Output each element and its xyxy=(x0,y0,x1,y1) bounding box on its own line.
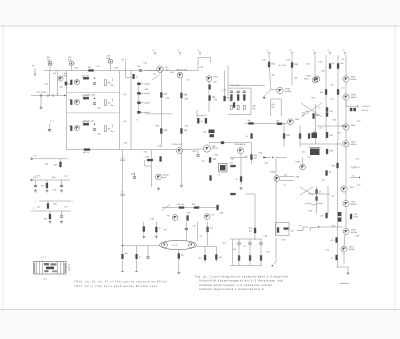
node v276 end xyxy=(272,265,273,266)
wire v181 low xyxy=(180,150,182,183)
svg-text:4n7: 4n7 xyxy=(342,87,345,90)
svg-text:R52: R52 xyxy=(193,150,196,153)
svg-text:2k2: 2k2 xyxy=(203,131,207,134)
wire v197 low xyxy=(197,222,199,241)
svg-text:21: 21 xyxy=(267,49,269,52)
resistor R62 xyxy=(326,171,332,176)
wire tv2 xyxy=(249,239,251,266)
resistor Rd xyxy=(238,256,240,261)
wire v209 xyxy=(208,82,210,113)
svg-text:BF194: BF194 xyxy=(349,248,356,251)
svg-text:21: 21 xyxy=(328,49,330,52)
transistor TR16 xyxy=(204,214,210,220)
svg-text:n47: n47 xyxy=(308,156,311,159)
wire h123 xyxy=(245,123,287,125)
wire sw bottom row xyxy=(145,113,173,115)
wire v269 xyxy=(269,55,277,90)
wire out row4 xyxy=(31,210,71,212)
resistor R80 xyxy=(251,155,253,160)
resistor R92 xyxy=(217,205,219,210)
svg-text:1n: 1n xyxy=(159,227,161,230)
svg-text:+40µ: +40µ xyxy=(131,173,136,176)
svg-text:C25: C25 xyxy=(53,72,56,75)
capacitor C51 xyxy=(146,257,149,258)
jack r2 xyxy=(31,179,33,181)
break mark 2 xyxy=(120,194,125,196)
resistor R2a xyxy=(83,97,89,99)
wire chain d xyxy=(345,130,347,141)
resistor R48 xyxy=(308,134,310,139)
transistor TR53 xyxy=(343,229,349,235)
transistor TR8 xyxy=(343,76,349,82)
svg-text:R76: R76 xyxy=(53,189,56,192)
svg-text:R35: R35 xyxy=(171,71,174,74)
pot loop P3 xyxy=(271,99,282,116)
resistor R99 xyxy=(215,255,217,260)
svg-text:4 5: 4 5 xyxy=(44,278,48,281)
wire v198 xyxy=(197,150,199,155)
resistor R65 xyxy=(326,213,328,218)
svg-text:6k8 2k2: 6k8 2k2 xyxy=(82,121,90,124)
svg-text:TR31: TR31 xyxy=(213,76,219,79)
svg-text:25µ: 25µ xyxy=(98,133,102,136)
svg-text:log: log xyxy=(253,107,256,110)
svg-text:AC128: AC128 xyxy=(212,147,219,150)
svg-text:25µ: 25µ xyxy=(111,84,115,87)
wire c62 lead xyxy=(61,211,63,215)
svg-text:5µ6: 5µ6 xyxy=(60,86,63,89)
wire v228 xyxy=(227,65,229,96)
svg-text:3n3: 3n3 xyxy=(233,248,236,251)
svg-text:out: out xyxy=(68,269,71,272)
svg-text:4k7: 4k7 xyxy=(320,91,324,94)
wire box bottom xyxy=(67,149,177,151)
svg-text:R60: R60 xyxy=(309,210,312,213)
wire h207 xyxy=(162,207,219,209)
resistor R45 xyxy=(251,134,253,139)
resistor R72 xyxy=(209,158,217,163)
ground g5 xyxy=(155,235,158,239)
resistor Rt5 xyxy=(237,105,239,110)
svg-text:0.3V: 0.3V xyxy=(357,120,362,123)
resistor R1b xyxy=(105,80,107,86)
svg-text:C38: C38 xyxy=(166,97,169,100)
wire R24 lead xyxy=(110,63,112,71)
capacitor Ct1 xyxy=(230,91,233,92)
svg-text:3n9: 3n9 xyxy=(164,229,167,232)
resistor R2b xyxy=(105,100,107,106)
resistor R112 xyxy=(47,204,49,209)
contact a xyxy=(47,94,49,97)
wire fb loop xyxy=(145,160,152,166)
jack r1 xyxy=(31,158,33,160)
svg-text:6k8 2k2: 6k8 2k2 xyxy=(82,95,90,98)
page bottom edge xyxy=(0,309,400,311)
svg-text:470: 470 xyxy=(329,150,334,153)
svg-text:47k: 47k xyxy=(187,79,190,82)
cont mark 1 xyxy=(297,227,308,231)
wire v143 low xyxy=(143,222,145,234)
wire v276b xyxy=(273,238,277,266)
transistor TR6 xyxy=(203,145,210,152)
svg-text:TR51: TR51 xyxy=(349,186,355,189)
resistor R57 xyxy=(326,132,328,138)
wire chain b xyxy=(345,82,347,94)
resistor R36 xyxy=(209,96,217,101)
aerial symbol xyxy=(34,74,37,75)
svg-text:1k: 1k xyxy=(139,256,141,259)
svg-text:Schaltbild Kassettengerät mit: Schaltbild Kassettengerät mit 1-5 Verstä… xyxy=(199,280,283,283)
capacitor C21 xyxy=(48,62,52,65)
svg-text:TR49: TR49 xyxy=(351,124,357,127)
transistor TR34 xyxy=(274,176,280,182)
wire v276 xyxy=(275,158,277,236)
svg-text:→ 75: → 75 xyxy=(351,166,357,169)
transistor TR21 xyxy=(58,76,63,81)
svg-text:a.f.: a.f. xyxy=(299,224,302,227)
svg-text:→ 750 mV: → 750 mV xyxy=(360,105,370,108)
resistor Rt4 xyxy=(231,105,233,110)
resistor R94 xyxy=(143,227,145,232)
svg-text:1k2: 1k2 xyxy=(184,129,188,132)
wire tv3 xyxy=(260,239,262,266)
ground g1 xyxy=(157,187,160,191)
svg-text:1k: 1k xyxy=(236,178,238,181)
svg-text:R75: R75 xyxy=(37,175,40,178)
svg-text:rec/pb: rec/pb xyxy=(144,92,150,95)
svg-text:R36: R36 xyxy=(145,88,148,91)
wire v49 xyxy=(49,71,51,96)
svg-text:10µ: 10µ xyxy=(245,155,249,158)
cap C2a xyxy=(70,100,72,105)
svg-text:21 V: 21 V xyxy=(122,59,127,62)
wire output arrow xyxy=(346,101,358,107)
stub top e xyxy=(291,53,293,56)
transistor TR15 xyxy=(172,215,178,221)
svg-text:3: 3 xyxy=(33,207,34,210)
wire out row2 xyxy=(31,179,70,181)
tick s2a xyxy=(112,99,114,102)
end mark v136 xyxy=(135,271,137,273)
wire v181 xyxy=(180,78,182,147)
svg-text:K LS: K LS xyxy=(173,244,178,247)
resistor R66 xyxy=(350,214,352,219)
wire h144 xyxy=(300,143,342,145)
svg-text:10k: 10k xyxy=(41,185,44,188)
svg-text:LS: LS xyxy=(218,174,221,177)
transistor TR14 xyxy=(343,200,349,206)
resistor R90 xyxy=(179,207,184,209)
wire rail to mic circle xyxy=(145,70,157,72)
svg-text:R29: R29 xyxy=(115,67,118,70)
wire v348 xyxy=(347,267,349,271)
svg-text:100: 100 xyxy=(164,129,169,132)
wire h115 xyxy=(197,115,206,117)
ground g6 xyxy=(177,271,180,275)
svg-text:C48: C48 xyxy=(158,145,161,148)
resistor R64 xyxy=(316,197,318,201)
box note xyxy=(276,223,290,236)
resistor R71 xyxy=(160,157,162,162)
wire v57 xyxy=(57,71,59,96)
svg-text:390: 390 xyxy=(54,164,58,167)
svg-text:T5: T5 xyxy=(352,175,355,178)
wire c51 lead xyxy=(147,246,149,256)
resistor R31 xyxy=(160,93,168,98)
wire v284 xyxy=(283,123,285,147)
svg-text:Fig. 21. Circuit diagram of ca: Fig. 21. Circuit diagram of cassette dec… xyxy=(195,275,289,278)
wire v136 xyxy=(136,246,138,272)
resistor R97 xyxy=(178,254,184,259)
svg-text:40µ: 40µ xyxy=(68,59,72,62)
svg-text:21: 21 xyxy=(290,49,292,52)
svg-text:5k6: 5k6 xyxy=(248,119,252,122)
svg-text:100k: 100k xyxy=(145,156,149,159)
svg-text:C36: C36 xyxy=(319,61,322,64)
transistor TR32 xyxy=(288,119,294,125)
svg-text:C26: C26 xyxy=(69,99,72,102)
svg-text:C37: C37 xyxy=(342,58,345,61)
svg-text:1k8: 1k8 xyxy=(214,81,217,84)
svg-text:1k: 1k xyxy=(329,171,332,174)
transistor TR7 xyxy=(314,76,320,82)
resistor R33 xyxy=(181,93,189,98)
svg-text:0: 0 xyxy=(137,119,138,122)
svg-text:C62: C62 xyxy=(45,163,48,166)
comp out a xyxy=(350,108,353,111)
svg-text:R63: R63 xyxy=(333,119,336,122)
svg-text:0.1 47k: 0.1 47k xyxy=(279,64,287,67)
transistor TR30 xyxy=(277,87,283,93)
svg-text:+: + xyxy=(53,62,55,65)
svg-text:R51: R51 xyxy=(144,151,147,154)
svg-text:10k: 10k xyxy=(286,134,291,137)
wire v207 low xyxy=(207,222,209,246)
wire out row1 xyxy=(31,158,67,160)
svg-text:Schéma amplificateur 1-5 casse: Schéma amplificateur 1-5 cassettes stéré… xyxy=(199,284,272,287)
note figure captions xyxy=(195,275,289,291)
cont mark 2 xyxy=(310,228,316,232)
svg-text:C55: C55 xyxy=(326,249,329,252)
svg-text:BF194: BF194 xyxy=(351,96,358,99)
transistor TR10 xyxy=(343,124,349,130)
svg-text:TR33 BF194: TR33 BF194 xyxy=(234,143,246,146)
wire stage1 bottom xyxy=(67,91,120,93)
tick s3a xyxy=(112,125,114,128)
wire h194 xyxy=(308,193,330,195)
node s3 xyxy=(94,124,95,125)
wire sw column xyxy=(138,86,140,112)
capacitor C3b xyxy=(93,129,96,130)
svg-text:+: + xyxy=(35,200,37,203)
resistor R26 xyxy=(133,74,135,78)
svg-text:eq: eq xyxy=(244,245,246,248)
resistor R113 xyxy=(49,214,51,219)
wire chain h xyxy=(344,235,345,246)
resistor Rb xyxy=(277,228,279,233)
resistor Rc xyxy=(284,228,289,230)
svg-text:4k7: 4k7 xyxy=(254,157,258,160)
wire c61 lead xyxy=(61,180,63,185)
svg-text:21: 21 xyxy=(313,49,315,52)
pot P2 xyxy=(312,133,318,139)
svg-text:→ 4k: → 4k xyxy=(122,120,128,123)
svg-text:56k: 56k xyxy=(184,94,189,97)
ground g11 xyxy=(49,220,52,224)
svg-text:R27: R27 xyxy=(75,67,78,70)
connector DIN socket xyxy=(34,256,67,281)
svg-text:a: a xyxy=(122,155,124,158)
svg-text:R45: R45 xyxy=(307,63,310,66)
svg-text:R68: R68 xyxy=(220,212,223,215)
wire v186 low xyxy=(185,222,187,241)
svg-text:C39: C39 xyxy=(185,125,188,128)
resistor Rf xyxy=(260,256,262,261)
transistor TR9 xyxy=(343,94,349,100)
transformer T2 xyxy=(219,164,228,173)
wire X cross 1 xyxy=(301,103,322,117)
svg-text:150: 150 xyxy=(340,62,344,65)
resistor R38b xyxy=(205,118,207,123)
wire c60 lead xyxy=(35,180,37,185)
svg-text:R39: R39 xyxy=(156,125,159,128)
wire sw diag xyxy=(162,205,170,211)
comp out b xyxy=(353,108,356,111)
svg-text:10k: 10k xyxy=(330,110,333,113)
capacitor C40 xyxy=(133,177,136,178)
svg-text:4k7: 4k7 xyxy=(164,93,168,96)
wire supply drop xyxy=(126,62,132,78)
wire tone right xyxy=(250,88,252,115)
wire c40 lead xyxy=(134,172,136,176)
svg-text:M: M xyxy=(33,65,35,68)
svg-text:TR34: TR34 xyxy=(270,171,276,174)
svg-text:4k7: 4k7 xyxy=(321,215,325,218)
node s2 xyxy=(94,98,95,99)
wire h157c xyxy=(276,157,287,159)
wire step top xyxy=(198,58,211,71)
resistor R55 xyxy=(326,108,328,112)
stub top a xyxy=(154,53,156,56)
wire tone2 top xyxy=(230,238,262,240)
svg-text:4µ7: 4µ7 xyxy=(202,160,205,163)
wire v300b xyxy=(299,125,301,147)
svg-text:log: log xyxy=(272,106,275,109)
svg-text:5µ: 5µ xyxy=(154,73,157,76)
cap ta xyxy=(238,242,241,245)
resistor R1a xyxy=(83,77,89,79)
svg-text:4n7 3n3 2n2: 4n7 3n3 2n2 xyxy=(229,84,240,87)
transistor TR12 xyxy=(343,141,349,147)
svg-text:R66: R66 xyxy=(356,235,359,238)
svg-text:C29: C29 xyxy=(124,142,127,145)
wire v255 xyxy=(254,194,256,240)
svg-text:1k: 1k xyxy=(181,254,184,257)
wire v315 xyxy=(314,104,316,144)
svg-text:osc: osc xyxy=(302,151,305,154)
svg-text:R41: R41 xyxy=(263,59,266,62)
svg-text:470: 470 xyxy=(97,65,100,68)
svg-text:R24: R24 xyxy=(45,83,48,86)
svg-text:C59: C59 xyxy=(282,239,285,242)
resistor Rt6 xyxy=(243,105,245,110)
ground g9 xyxy=(46,189,49,193)
svg-text:C33: C33 xyxy=(200,66,203,69)
wire chain c xyxy=(345,100,347,124)
capacitor C24 xyxy=(109,60,113,63)
wire v133 screen xyxy=(130,71,132,150)
contact b xyxy=(52,94,54,97)
svg-text:40µ: 40µ xyxy=(125,252,129,255)
resistor R101 xyxy=(336,255,338,260)
svg-text:1 2 3: 1 2 3 xyxy=(41,256,46,259)
svg-text:R53: R53 xyxy=(215,154,218,157)
svg-text:R56: R56 xyxy=(332,165,337,168)
svg-text:21: 21 xyxy=(178,49,180,52)
svg-text:10µ: 10µ xyxy=(249,227,253,230)
svg-text:continued: continued xyxy=(340,282,350,285)
ground mic xyxy=(40,106,43,110)
ground g12 xyxy=(60,220,63,224)
arrow TR30 diag xyxy=(263,97,266,99)
svg-text:47k: 47k xyxy=(230,162,233,165)
wire tv1 xyxy=(238,239,240,266)
cap C3a xyxy=(70,126,72,131)
transistor TR33 xyxy=(238,148,244,154)
transistor TR31 xyxy=(206,76,212,82)
svg-text:4µ7: 4µ7 xyxy=(199,257,203,260)
resistor R3a xyxy=(83,123,89,125)
capacitor Ct3 xyxy=(243,91,246,92)
wire TR34 r1 xyxy=(280,176,294,178)
wire v251 xyxy=(250,143,252,164)
wire box right v119 xyxy=(119,71,121,150)
wire chain e xyxy=(345,147,347,186)
capacitor C50 xyxy=(185,228,188,229)
resistor R32 xyxy=(160,129,168,134)
wire v197 xyxy=(196,110,198,118)
ground g7 xyxy=(347,271,350,275)
svg-text:1k8: 1k8 xyxy=(276,119,280,122)
arrow output xyxy=(357,105,359,108)
svg-text:1k: 1k xyxy=(284,184,286,187)
wire h194b xyxy=(245,193,255,195)
svg-text:C45: C45 xyxy=(319,127,322,130)
svg-text:C58: C58 xyxy=(264,235,267,238)
wire v337 mid xyxy=(337,140,339,267)
svg-text:5k: 5k xyxy=(319,191,321,194)
resistor R54 xyxy=(337,90,339,95)
pot P1b xyxy=(210,134,215,137)
svg-text:220: 220 xyxy=(322,70,325,73)
svg-text:+: + xyxy=(68,158,70,161)
wire tone2 bottom xyxy=(230,265,262,267)
svg-text:rec/pb: rec/pb xyxy=(144,102,150,105)
transistor TR35 xyxy=(300,164,306,170)
switch S1c xyxy=(137,102,140,105)
transistor TR27 xyxy=(74,125,79,130)
svg-text:220: 220 xyxy=(212,158,217,161)
capacitor C2b xyxy=(93,103,96,104)
svg-text:R43: R43 xyxy=(287,59,290,62)
capacitor C30 xyxy=(139,70,142,71)
wire TR30 diag xyxy=(263,90,271,98)
svg-text:1k: 1k xyxy=(201,120,203,123)
svg-text:1k5: 1k5 xyxy=(88,66,92,69)
capacitor C1b xyxy=(93,83,96,84)
transistor TR26 xyxy=(74,99,79,104)
wire TR5-TR6 xyxy=(183,148,204,151)
